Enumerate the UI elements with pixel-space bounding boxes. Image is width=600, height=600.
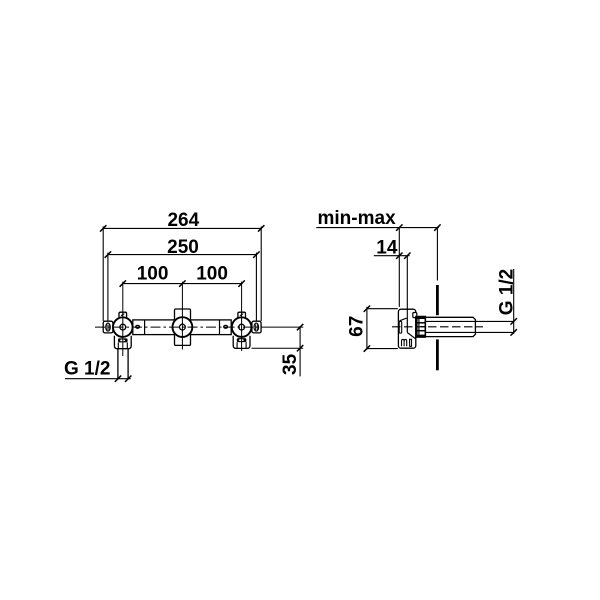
- pipe: [426, 317, 476, 336]
- side body chamfer top: [400, 318, 407, 321]
- svg-text:100: 100: [137, 263, 169, 284]
- extension line 250 right: [255, 253, 257, 321]
- left pipe below valve: [118, 349, 128, 379]
- dimension min-max: [316, 208, 440, 231]
- side body bottom slots: [402, 339, 407, 346]
- wall line thick upper: [436, 285, 439, 315]
- centerline middle valve: [181, 282, 183, 350]
- svg-text:G 1/2: G 1/2: [497, 269, 518, 315]
- svg-text:250: 250: [167, 237, 199, 258]
- dimension 100 100: [120, 263, 245, 287]
- side body inlet boss: [399, 321, 402, 333]
- side body top tab: [413, 313, 417, 318]
- svg-text:67: 67: [347, 316, 368, 337]
- svg-text:100: 100: [196, 263, 228, 284]
- extension line 264 right: [260, 226, 262, 321]
- side body chamfer bottom: [407, 333, 415, 339]
- extension 14 right: [406, 256, 408, 318]
- right valve body circle: [232, 317, 252, 337]
- middle valve body circle: [173, 317, 193, 337]
- pipe centerline: [392, 326, 483, 328]
- extension min-max left: [398, 228, 400, 307]
- left valve top tab: [119, 312, 127, 318]
- middle valve inner circle: [180, 324, 186, 330]
- connecting bar: [133, 320, 231, 335]
- pipe thread line top: [426, 320, 514, 322]
- horizontal centerline: [95, 326, 262, 328]
- dimension 14: [374, 238, 411, 259]
- right valve inner circle: [239, 324, 245, 330]
- dimension 250: [105, 237, 260, 258]
- dimension 35: [252, 324, 304, 377]
- extension line 250 left: [107, 253, 109, 321]
- right mounting ear: [252, 321, 261, 333]
- svg-text:G 1/2: G 1/2: [64, 358, 110, 379]
- centerline left valve: [122, 282, 124, 356]
- bar joint right: [219, 320, 221, 335]
- bar joint left: [144, 320, 146, 335]
- right valve top tab: [238, 312, 246, 318]
- left outlet fitting: [114, 336, 131, 349]
- svg-text:min-max: min-max: [318, 208, 397, 229]
- bar screw right: [224, 325, 228, 328]
- dimension 264: [100, 210, 264, 232]
- left valve body circle: [113, 317, 133, 337]
- bar screw left: [136, 325, 140, 328]
- dimension G 1/2 side: [497, 269, 518, 336]
- svg-text:264: 264: [167, 210, 199, 231]
- left mounting ear: [103, 321, 113, 333]
- centerline right valve: [241, 282, 243, 351]
- pipe thread line bottom: [426, 331, 514, 333]
- middle valve block: [175, 309, 191, 345]
- side body internal edge: [406, 318, 408, 333]
- wall line thin extension: [436, 228, 438, 280]
- G 1/2 label front: [64, 358, 131, 382]
- hex nut: [416, 317, 425, 338]
- side body: [398, 309, 415, 348]
- left valve inner circle: [120, 324, 126, 330]
- wall line thick lower: [436, 339, 439, 370]
- dimension 67: [347, 306, 398, 352]
- extension line 264 left: [102, 226, 104, 321]
- right outlet fitting: [233, 336, 250, 349]
- svg-text:35: 35: [280, 353, 301, 375]
